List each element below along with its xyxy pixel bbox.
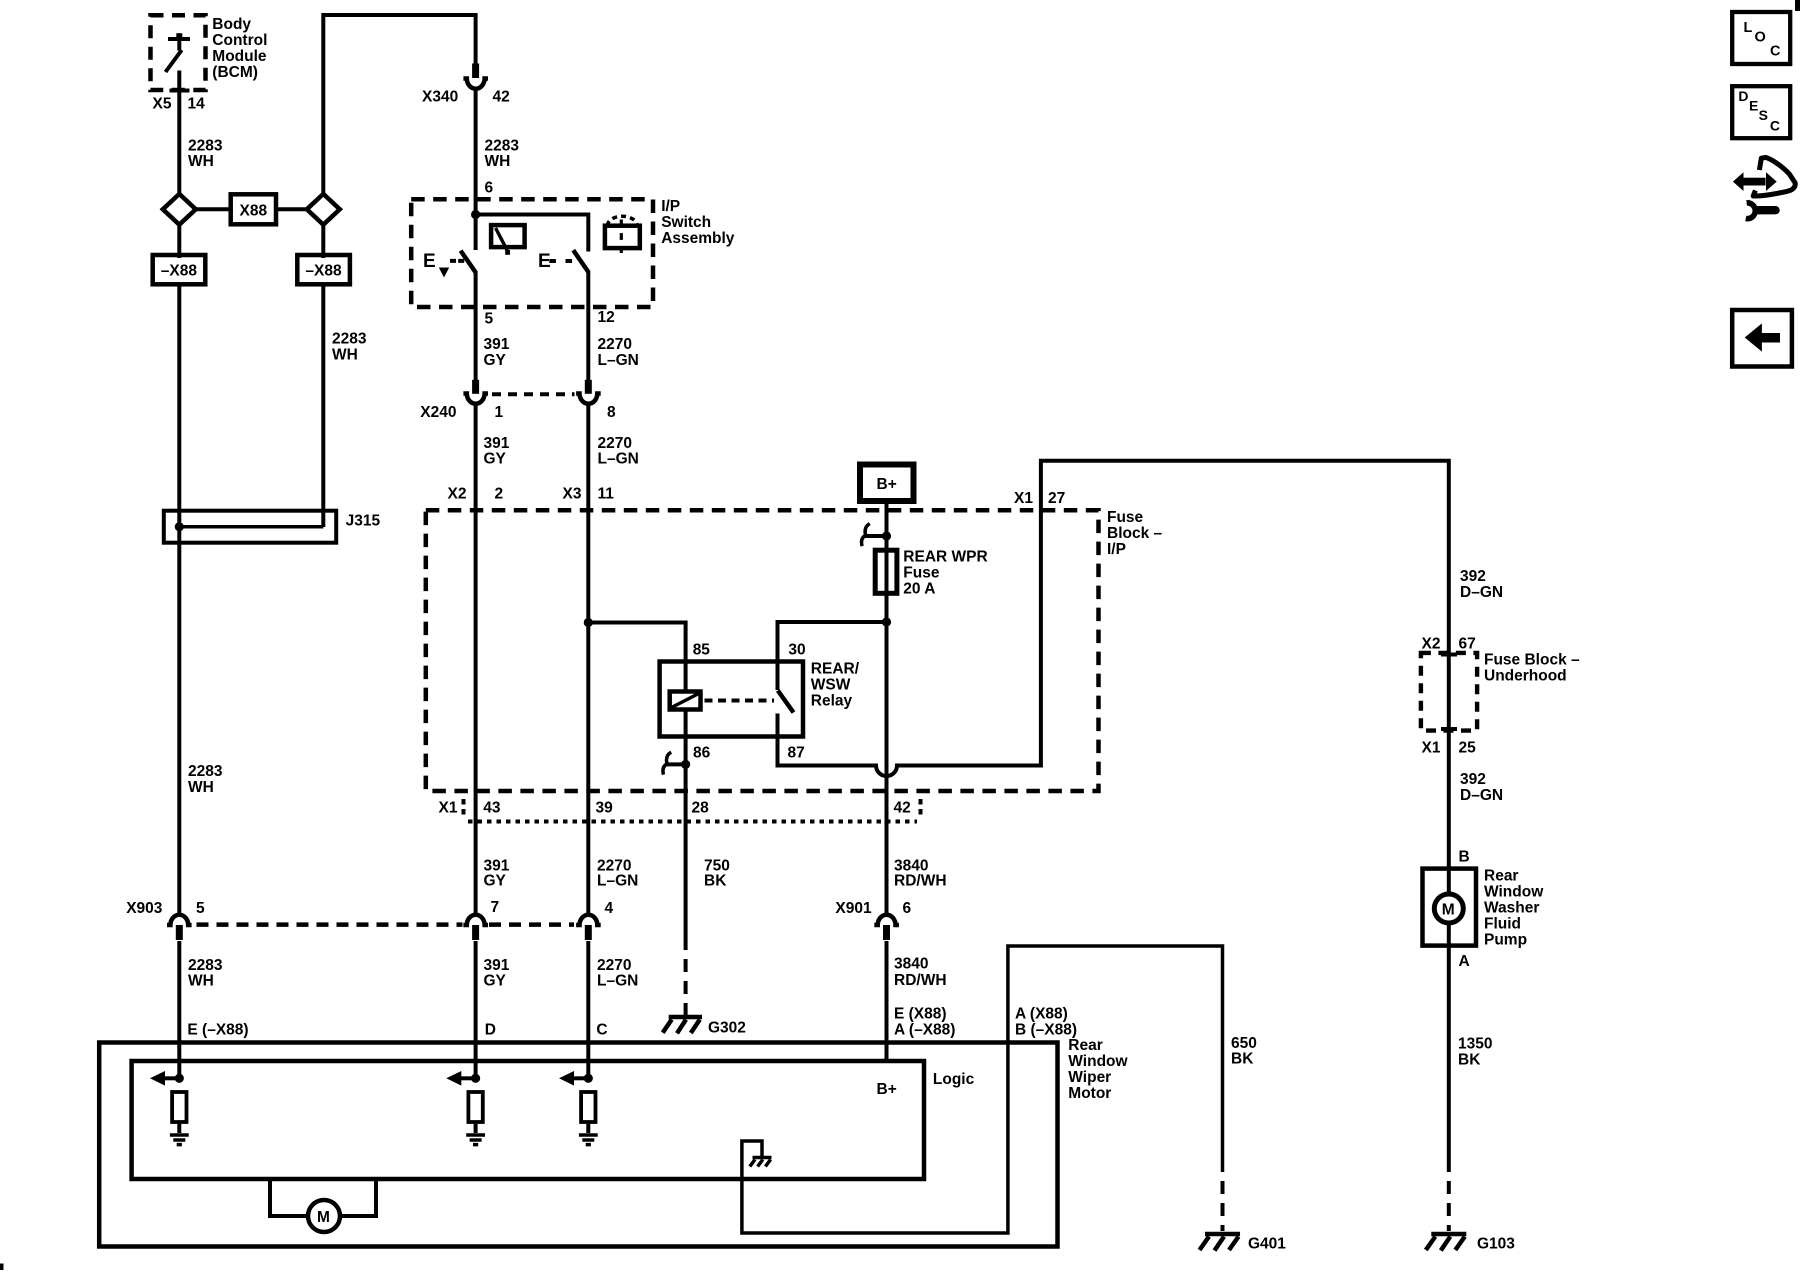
wire 650 BK ground path to G401: [742, 946, 1223, 1233]
connector X901 cup: [874, 915, 899, 925]
connector X1 fuse block bottom: [439, 799, 921, 822]
svg-text:E: E: [538, 251, 551, 272]
pin tick BCM bottom: [170, 89, 190, 93]
connector X240 dash link: [492, 392, 575, 396]
svg-text:E: E: [423, 251, 436, 272]
Fuse Block Underhood box: [1421, 651, 1580, 730]
svg-text:Relay: Relay: [811, 692, 853, 709]
wire relay 87 out via X1 27: [778, 461, 1449, 776]
svg-text:B (–X88): B (–X88): [1015, 1022, 1077, 1039]
svg-text:X5: X5: [153, 95, 172, 112]
svg-text:L: L: [1744, 20, 1753, 36]
wire pump to G103: [1447, 923, 1451, 1172]
svg-text:11: 11: [598, 486, 615, 503]
svg-text:Fuse Block –: Fuse Block –: [1484, 651, 1580, 668]
svg-text:REAR WPR: REAR WPR: [903, 548, 987, 565]
svg-text:Logic: Logic: [933, 1071, 975, 1088]
svg-text:2270: 2270: [597, 957, 631, 974]
svg-text:2270: 2270: [598, 435, 632, 452]
svg-text:30: 30: [788, 641, 805, 658]
relay coil-contact dashed link: [705, 699, 775, 703]
svg-text:12: 12: [598, 309, 615, 326]
wire top loop from diamond branch to X340: [323, 15, 475, 194]
svg-text:A (–X88): A (–X88): [894, 1022, 955, 1039]
svg-text:Pump: Pump: [1484, 931, 1527, 948]
motor input C: node arrow resistor ground: [559, 1071, 598, 1145]
svg-text:X340: X340: [422, 89, 458, 106]
svg-text:WH: WH: [332, 346, 358, 363]
svg-text:6: 6: [903, 900, 912, 917]
svg-text:392: 392: [1460, 771, 1486, 788]
svg-text:I/P: I/P: [1107, 541, 1126, 558]
svg-text:86: 86: [693, 744, 711, 761]
wire relay 86 down to G302: [684, 737, 688, 951]
motor input D: node arrow resistor ground: [446, 1071, 485, 1145]
svg-text:WSW: WSW: [811, 676, 851, 693]
connector X340 cup: [463, 79, 488, 89]
connector X240 pins: [472, 380, 479, 394]
connector diamond left: [163, 194, 196, 225]
connector X88: [231, 194, 276, 224]
svg-text:1350: 1350: [1458, 1036, 1492, 1053]
connector X240 cups: [463, 394, 488, 404]
svg-text:43: 43: [483, 799, 501, 816]
svg-text:GY: GY: [484, 451, 507, 468]
svg-text:D: D: [485, 1022, 496, 1039]
logic module box: [132, 1061, 975, 1179]
wire dashed to G103: [1447, 1172, 1451, 1231]
wiper motor M: [270, 1179, 376, 1232]
svg-text:E (X88): E (X88): [894, 1006, 947, 1023]
svg-text:X901: X901: [835, 900, 872, 917]
svg-text:85: 85: [693, 641, 711, 658]
svg-text:27: 27: [1048, 490, 1065, 507]
internal ground hook in logic box: [742, 1141, 772, 1179]
svg-text:Window: Window: [1484, 883, 1544, 900]
wire X340 down to switch: [474, 88, 478, 250]
svg-text:E: E: [1749, 97, 1758, 113]
svg-text:42: 42: [493, 89, 510, 106]
svg-text:42: 42: [894, 799, 911, 816]
svg-text:2283: 2283: [188, 957, 223, 974]
wire B+ down through fuse to X901: [885, 501, 889, 916]
svg-text:GY: GY: [484, 972, 507, 989]
pin tick underhood bottom: [1441, 727, 1457, 731]
wire X901-6 to motor B+: [885, 941, 889, 1063]
svg-text:I/P: I/P: [661, 198, 680, 215]
svg-text:GY: GY: [484, 872, 507, 889]
wire X240-1 down into fuse block: [474, 404, 478, 917]
svg-text:392: 392: [1460, 568, 1486, 585]
fuse REAR WPR 20 A: [875, 548, 987, 597]
node fuse to relay30 junction: [882, 617, 891, 626]
splice J315: [164, 511, 381, 543]
svg-text:X1: X1: [439, 799, 458, 816]
svg-text:7: 7: [491, 899, 500, 916]
switch E-- label right: [538, 251, 572, 272]
svg-text:REAR/: REAR/: [811, 660, 860, 677]
svg-text:–X88: –X88: [305, 263, 342, 280]
svg-text:Control: Control: [212, 32, 267, 49]
svg-text:B+: B+: [877, 476, 897, 493]
wiper icon: [491, 225, 524, 255]
wire X903-4 to motor C: [586, 941, 590, 1078]
connector X903 pins: [176, 925, 183, 940]
svg-text:5: 5: [196, 900, 205, 917]
svg-text:2283: 2283: [188, 763, 223, 780]
svg-text:G103: G103: [1477, 1236, 1515, 1253]
svg-text:O: O: [1755, 29, 1766, 45]
svg-text:3840: 3840: [894, 956, 928, 973]
svg-text:8: 8: [607, 404, 616, 421]
connector diamond right: [307, 194, 340, 225]
svg-text:X1: X1: [1014, 490, 1033, 507]
svg-text:X88: X88: [240, 202, 268, 219]
svg-text:RD/WH: RD/WH: [894, 872, 947, 889]
svg-text:C: C: [596, 1022, 607, 1039]
svg-text:39: 39: [596, 799, 614, 816]
node junction pin6: [471, 210, 480, 219]
Rear Window Wiper Motor box: [99, 1037, 1128, 1247]
connector -X88 right: [297, 255, 350, 284]
svg-text:Body: Body: [212, 16, 251, 33]
svg-text:GY: GY: [484, 352, 507, 369]
connector X901 pin: [883, 925, 890, 940]
svg-text:J315: J315: [346, 512, 381, 529]
svg-text:WH: WH: [485, 153, 511, 170]
svg-text:(BCM): (BCM): [212, 64, 258, 81]
svg-text:S: S: [1759, 107, 1768, 123]
bus tap at relay 86: [663, 752, 690, 775]
svg-text:BK: BK: [1458, 1051, 1481, 1068]
svg-text:L–GN: L–GN: [598, 451, 639, 468]
relay coil: [670, 662, 701, 737]
svg-text:A (X88): A (X88): [1015, 1006, 1068, 1023]
svg-text:2283: 2283: [332, 331, 367, 348]
svg-text:X240: X240: [420, 404, 456, 421]
ground G103: [1426, 1234, 1515, 1253]
BCM internal switch contact: [166, 33, 191, 72]
svg-text:D–GN: D–GN: [1460, 787, 1503, 804]
svg-text:Window: Window: [1068, 1053, 1128, 1070]
icon DESC button: [1732, 86, 1790, 138]
icon back arrow button: [1732, 310, 1792, 367]
svg-text:Switch: Switch: [661, 214, 711, 231]
svg-text:Assembly: Assembly: [661, 230, 735, 247]
svg-text:X2: X2: [448, 486, 467, 503]
svg-text:WH: WH: [188, 779, 214, 796]
wire switch left down to X240: [474, 271, 478, 381]
wire X88 to diamond: [276, 207, 307, 211]
svg-text:D: D: [1738, 88, 1748, 104]
svg-text:391: 391: [484, 957, 510, 974]
svg-text:391: 391: [484, 336, 510, 353]
svg-text:5: 5: [485, 310, 494, 327]
svg-text:WH: WH: [188, 972, 214, 989]
wire relay 30 riser: [778, 622, 887, 662]
svg-text:A: A: [1459, 953, 1470, 970]
wire switch right down to X240: [586, 271, 590, 381]
connector X903 dash links: [197, 922, 463, 927]
icon LOC button: [1732, 12, 1790, 64]
wire diamond right down: [321, 225, 325, 258]
svg-text:4: 4: [605, 900, 614, 917]
svg-text:650: 650: [1231, 1035, 1257, 1052]
svg-text:WH: WH: [188, 153, 214, 170]
svg-text:X903: X903: [126, 900, 163, 917]
svg-text:67: 67: [1459, 636, 1476, 653]
svg-text:2: 2: [495, 486, 504, 503]
wire -X88 left down to X903: [177, 284, 181, 916]
svg-text:B: B: [1459, 849, 1470, 866]
wire relay 85 riser: [588, 623, 685, 662]
svg-text:L–GN: L–GN: [597, 972, 638, 989]
svg-text:–X88: –X88: [161, 263, 198, 280]
wire 392 D-GN down to pump: [1447, 654, 1451, 894]
Rear Window Washer Fluid Pump: [1423, 867, 1545, 948]
wire X903-5 to motor E: [177, 941, 181, 1078]
svg-text:D–GN: D–GN: [1460, 584, 1503, 601]
connector X340 pin: [472, 64, 479, 79]
switch E-v label left: [423, 251, 466, 278]
motor input E: node arrow resistor ground: [150, 1071, 189, 1145]
wire BCM pin 14 down to diamond: [177, 71, 181, 195]
svg-text:L–GN: L–GN: [597, 872, 638, 889]
switch blade left (wiper): [461, 251, 476, 273]
svg-text:E (–X88): E (–X88): [187, 1022, 248, 1039]
svg-text:6: 6: [485, 180, 494, 197]
svg-text:Motor: Motor: [1068, 1085, 1111, 1102]
B+ feed box: [860, 465, 914, 502]
wire diamond to X88: [196, 207, 231, 211]
svg-text:C: C: [1770, 43, 1781, 59]
wire -X88 right down to J315: [321, 284, 325, 527]
page corner mark top right: [1795, 0, 1800, 11]
switch blade right (washer): [573, 250, 588, 272]
wire X240-8 down into fuse block: [586, 404, 590, 917]
svg-text:Wiper: Wiper: [1068, 1069, 1111, 1086]
ground G302: [663, 1017, 746, 1037]
washer icon: [605, 216, 640, 253]
svg-text:Module: Module: [212, 48, 267, 65]
Body Control Module (BCM): [151, 15, 268, 90]
wire dashed to G302: [684, 950, 688, 1016]
pin tick underhood top: [1441, 653, 1457, 657]
svg-text:RD/WH: RD/WH: [894, 972, 947, 989]
svg-text:B+: B+: [877, 1081, 897, 1098]
svg-text:20 A: 20 A: [903, 580, 935, 597]
svg-text:Fuse: Fuse: [903, 564, 940, 581]
svg-text:25: 25: [1459, 740, 1477, 757]
svg-text:M: M: [1442, 901, 1455, 918]
svg-text:Washer: Washer: [1484, 899, 1539, 916]
svg-text:X2: X2: [1422, 636, 1441, 653]
svg-text:G302: G302: [708, 1020, 746, 1037]
svg-text:Fuse: Fuse: [1107, 509, 1144, 526]
svg-text:Rear: Rear: [1484, 867, 1518, 884]
icon schematic navigation arrows and wrench: [1733, 157, 1795, 218]
svg-text:Rear: Rear: [1068, 1037, 1102, 1054]
wire junction to right switch: [476, 215, 589, 252]
svg-text:X1: X1: [1422, 740, 1441, 757]
I/P Switch Assembly box: [411, 198, 735, 307]
svg-text:Underhood: Underhood: [1484, 667, 1567, 684]
wire diamond left down: [177, 225, 181, 258]
svg-text:BK: BK: [1231, 1051, 1254, 1068]
relay switch contact: [778, 662, 794, 737]
connector X903 cups: [167, 915, 192, 925]
Fuse Block I/P box: [426, 509, 1163, 791]
connector -X88 left: [153, 255, 206, 284]
svg-text:Block –: Block –: [1107, 525, 1163, 542]
svg-text:BK: BK: [704, 872, 727, 889]
page corner mark bottom left: [0, 1264, 4, 1271]
node switch branch junction: [584, 618, 593, 627]
svg-text:X3: X3: [563, 486, 582, 503]
bus tap at fuse: [862, 524, 892, 547]
svg-text:2270: 2270: [598, 336, 632, 353]
svg-text:14: 14: [188, 95, 206, 112]
svg-text:C: C: [1770, 117, 1780, 133]
svg-text:Fluid: Fluid: [1484, 915, 1521, 932]
svg-text:1: 1: [495, 404, 504, 421]
wire X903-7 to motor D: [474, 941, 478, 1078]
wire dashed to G401: [1221, 1172, 1225, 1231]
svg-text:M: M: [317, 1209, 330, 1226]
ground G401: [1200, 1234, 1287, 1253]
svg-text:G401: G401: [1248, 1236, 1286, 1253]
relay REAR/WSW: [660, 660, 860, 736]
svg-text:87: 87: [788, 744, 805, 761]
svg-text:L–GN: L–GN: [598, 352, 639, 369]
svg-text:391: 391: [484, 435, 510, 452]
svg-text:28: 28: [692, 799, 710, 816]
